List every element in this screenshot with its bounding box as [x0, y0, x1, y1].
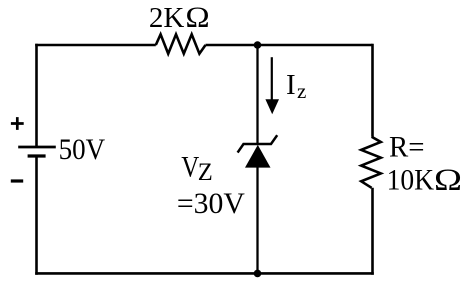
svg-text:R=: R= [389, 131, 425, 164]
svg-text:z: z [297, 79, 306, 103]
wire: bottom segment (left corner to node B) [35, 272, 257, 275]
current arrow Iz (head) [265, 99, 279, 114]
wire: middle upper segment (node A to zener cathode) [256, 45, 258, 144]
svg-text:I: I [286, 69, 296, 101]
battery 50V: short negative plate [28, 154, 46, 157]
resistor R 10KΩ (vertical zigzag) [361, 137, 381, 188]
svg-text:50V: 50V [59, 133, 106, 166]
current arrow Iz (shaft) [271, 57, 273, 101]
zener diode D1: anode triangle [245, 145, 271, 168]
svg-text:=30V: =30V [177, 187, 245, 220]
resistor 2KΩ (zigzag) [156, 34, 206, 53]
wire: top-right segment (node A to right corner) [258, 44, 373, 47]
wire: left lower segment (battery to bottom corner) [35, 156, 38, 275]
svg-text:2K: 2K [149, 2, 185, 34]
wire: middle lower segment (zener anode to node B) [256, 167, 258, 274]
wire: right upper segment (top corner to resistor R) [371, 44, 374, 137]
wire: top-left segment (battery + to resistor) [37, 44, 156, 45]
svg-text:10K: 10K [387, 164, 435, 197]
wire: right lower segment (resistor R to bottom corner) [371, 188, 374, 275]
battery 50V: long positive plate [18, 146, 56, 149]
node A (top junction dot) [254, 41, 262, 49]
label: battery + polarity [11, 117, 24, 130]
zener diode D1: cathode bar with bent ends [238, 135, 278, 152]
wire: left upper segment (top corner down to battery) [35, 44, 38, 147]
label: battery − polarity [11, 179, 23, 182]
svg-text:Ω: Ω [185, 1, 209, 34]
wire: top-middle segment (resistor to node A) [206, 44, 258, 47]
svg-text:Z: Z [198, 159, 213, 186]
node B (bottom junction dot) [254, 270, 262, 278]
wire: bottom-right segment (node B to right corner) [258, 272, 374, 275]
svg-text:Ω: Ω [434, 162, 462, 197]
